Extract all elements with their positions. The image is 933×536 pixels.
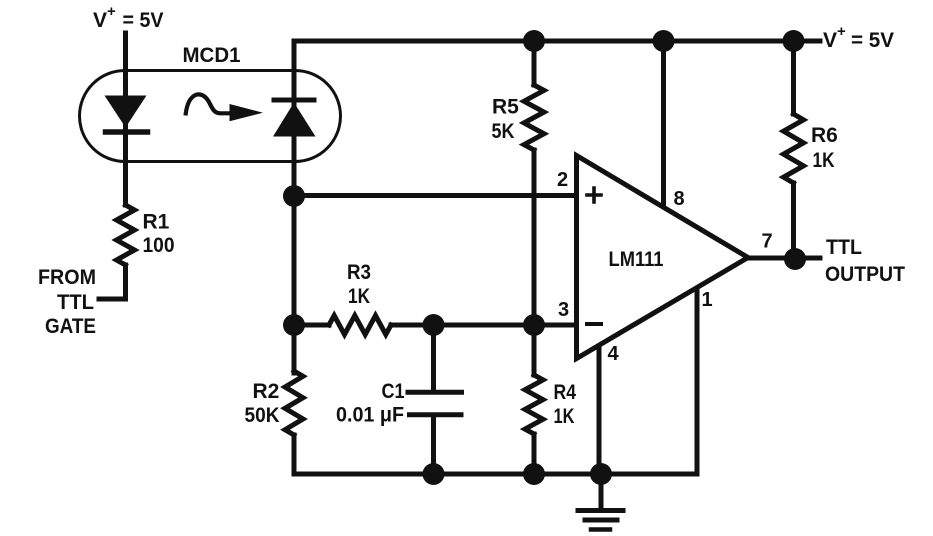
svg-text:50K: 50K bbox=[245, 404, 280, 427]
svg-text:100: 100 bbox=[143, 234, 175, 257]
svg-text:R6: R6 bbox=[811, 124, 838, 147]
svg-text:V: V bbox=[93, 9, 107, 32]
svg-text:LM111: LM111 bbox=[609, 248, 664, 271]
svg-text:R1: R1 bbox=[143, 211, 170, 234]
svg-text:FROM: FROM bbox=[38, 266, 96, 289]
svg-text:TTL: TTL bbox=[826, 236, 862, 259]
svg-text:0.01 μF: 0.01 μF bbox=[336, 404, 404, 427]
svg-text:V: V bbox=[823, 29, 837, 52]
svg-text:7: 7 bbox=[762, 231, 773, 253]
svg-text:3: 3 bbox=[558, 299, 569, 321]
svg-text:5K: 5K bbox=[492, 120, 515, 143]
svg-text:R2: R2 bbox=[253, 380, 280, 403]
svg-text:1: 1 bbox=[702, 289, 713, 311]
svg-text:+: + bbox=[837, 23, 846, 40]
svg-text:1K: 1K bbox=[348, 285, 370, 308]
svg-text:= 5V: = 5V bbox=[851, 29, 894, 52]
svg-text:1K: 1K bbox=[554, 405, 575, 428]
svg-text:8: 8 bbox=[674, 188, 685, 210]
svg-text:OUTPUT: OUTPUT bbox=[825, 263, 905, 286]
svg-text:C1: C1 bbox=[382, 380, 405, 403]
svg-text:R5: R5 bbox=[492, 96, 519, 119]
svg-text:R3: R3 bbox=[347, 261, 371, 284]
svg-text:TTL: TTL bbox=[57, 291, 94, 314]
svg-text:R4: R4 bbox=[554, 381, 577, 404]
svg-text:4: 4 bbox=[608, 343, 620, 365]
svg-text:+: + bbox=[107, 3, 116, 20]
svg-text:GATE: GATE bbox=[45, 315, 96, 338]
svg-text:2: 2 bbox=[557, 169, 568, 191]
svg-text:= 5V: = 5V bbox=[123, 9, 164, 32]
svg-text:1K: 1K bbox=[813, 149, 835, 172]
svg-text:MCD1: MCD1 bbox=[183, 44, 241, 67]
